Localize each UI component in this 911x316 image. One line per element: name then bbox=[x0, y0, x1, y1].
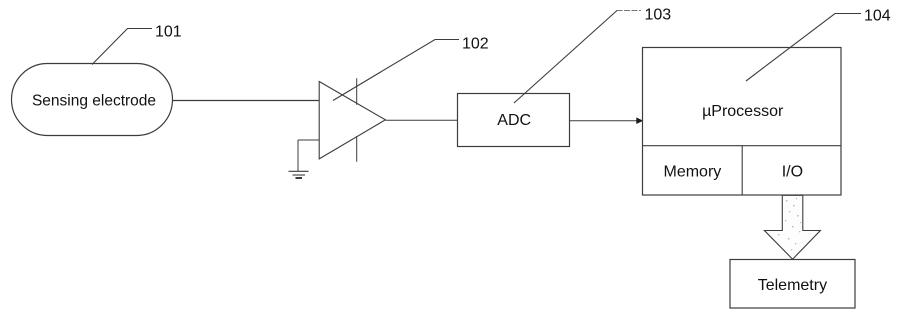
leader line to 103 bbox=[617, 10, 642, 12]
leader line to 102 bbox=[333, 40, 459, 101]
hollow block arrow: io to telemetry bbox=[764, 195, 820, 259]
sensing electrode block 101 bbox=[12, 64, 173, 136]
svg-text:ADC: ADC bbox=[497, 112, 531, 129]
amplifier top tick mark bbox=[356, 78, 358, 105]
wire: electrode output to amplifier input bbox=[173, 100, 320, 102]
speckle texture inside block arrow (scan artifact) bbox=[778, 198, 801, 250]
svg-text:Telemetry: Telemetry bbox=[758, 277, 827, 294]
svg-text:µProcessor: µProcessor bbox=[702, 103, 784, 120]
wire with arrowhead: ADC to microprocessor bbox=[570, 120, 638, 122]
arrowhead at microprocessor input bbox=[636, 117, 643, 124]
amplifier U1 (102) triangle bbox=[319, 82, 385, 159]
svg-text:Sensing electrode: Sensing electrode bbox=[32, 93, 156, 110]
wire: ground branch vertical bbox=[297, 140, 299, 171]
wire: ground branch horizontal into amplifier bbox=[298, 139, 319, 141]
svg-text:Memory: Memory bbox=[664, 163, 722, 180]
wire: amplifier output to ADC bbox=[385, 119, 457, 121]
divider: memory / io bbox=[741, 146, 743, 195]
leader line to 101 bbox=[92, 29, 152, 65]
svg-text:102: 102 bbox=[462, 36, 489, 53]
svg-text:104: 104 bbox=[864, 8, 891, 25]
svg-text:103: 103 bbox=[645, 7, 672, 24]
ground symbol bbox=[289, 171, 309, 178]
ADC block 103 bbox=[458, 94, 570, 147]
divider: microprocessor / memory-io row bbox=[643, 145, 842, 147]
leader line to 104 bbox=[746, 14, 861, 82]
microprocessor block 104 bbox=[643, 48, 842, 196]
amplifier bottom tick mark bbox=[356, 136, 358, 162]
telemetry block bbox=[730, 260, 855, 309]
svg-text:I/O: I/O bbox=[782, 163, 803, 180]
svg-text:101: 101 bbox=[155, 24, 182, 41]
